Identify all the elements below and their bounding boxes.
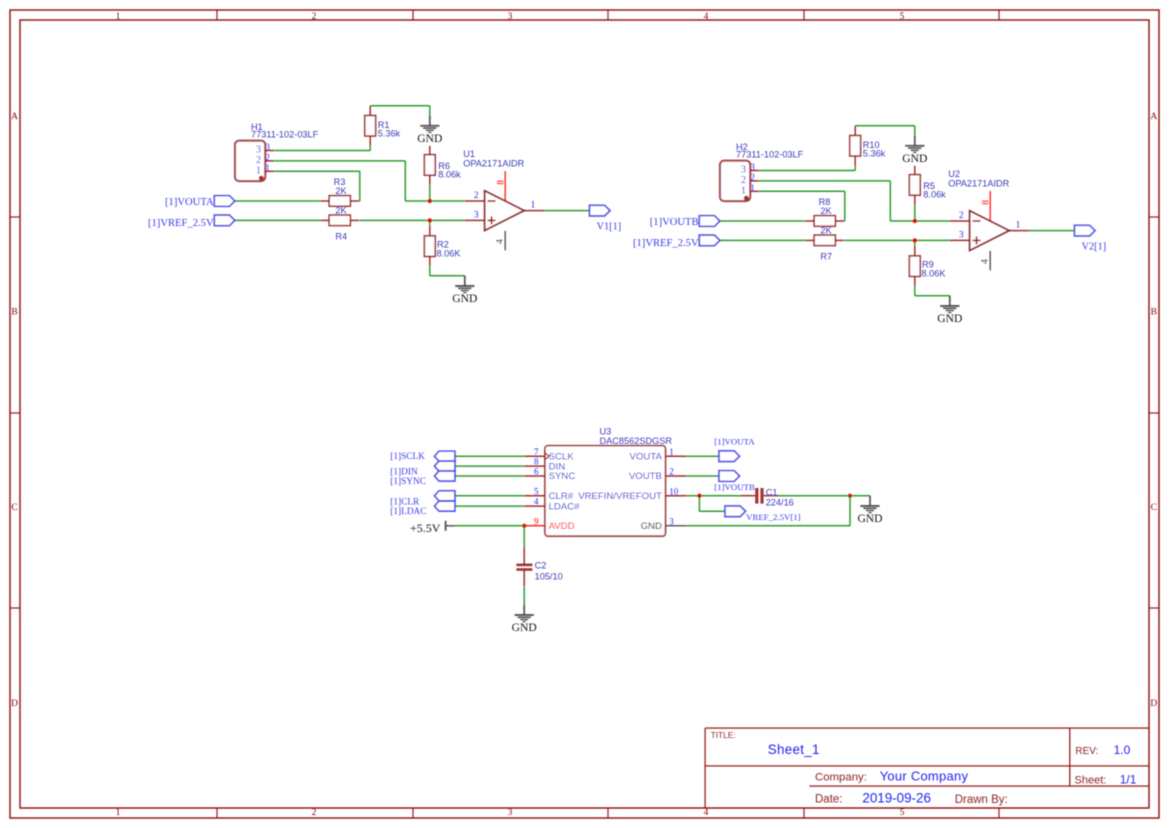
- svg-text:3: 3: [508, 12, 513, 22]
- svg-text:[1]CLR: [1]CLR: [390, 498, 420, 508]
- svg-text:R7: R7: [820, 252, 832, 262]
- svg-text:Sheet_1: Sheet_1: [768, 742, 820, 757]
- svg-text:2: 2: [312, 808, 317, 818]
- svg-text:3: 3: [265, 143, 270, 153]
- svg-text:GND: GND: [417, 132, 442, 145]
- svg-text:LDAC#: LDAC#: [549, 501, 581, 512]
- svg-text:2: 2: [265, 154, 270, 164]
- svg-text:VOUTB: VOUTB: [629, 471, 662, 482]
- svg-text:Date:: Date:: [815, 793, 843, 805]
- svg-text:5.36k: 5.36k: [378, 129, 401, 139]
- svg-text:3: 3: [508, 808, 513, 818]
- svg-text:3: 3: [256, 145, 261, 156]
- svg-text:B: B: [11, 308, 17, 318]
- svg-text:[1]VOUTB: [1]VOUTB: [714, 482, 755, 492]
- svg-text:2K: 2K: [335, 186, 347, 196]
- svg-text:D: D: [1150, 699, 1157, 709]
- svg-text:[1]VREF_2.5V: [1]VREF_2.5V: [148, 218, 214, 229]
- svg-text:OPA2171AIDR: OPA2171AIDR: [463, 158, 524, 168]
- svg-text:Drawn By:: Drawn By:: [955, 794, 1008, 806]
- svg-text:8.06k: 8.06k: [438, 170, 461, 180]
- svg-text:2019-09-26: 2019-09-26: [862, 790, 931, 805]
- svg-text:8: 8: [496, 180, 506, 185]
- svg-text:[1]VOUTA: [1]VOUTA: [714, 437, 755, 447]
- svg-text:[1]LDAC: [1]LDAC: [390, 507, 426, 517]
- svg-text:6: 6: [534, 467, 539, 477]
- svg-text:5: 5: [900, 808, 905, 818]
- svg-text:4: 4: [704, 12, 709, 22]
- svg-text:[1]DIN: [1]DIN: [390, 467, 418, 477]
- svg-text:2: 2: [474, 191, 479, 201]
- svg-text:2: 2: [959, 211, 964, 221]
- svg-text:1: 1: [116, 808, 121, 818]
- svg-text:1: 1: [531, 200, 536, 210]
- svg-text:Your Company: Your Company: [880, 768, 969, 783]
- svg-text:8.06K: 8.06K: [437, 248, 462, 258]
- svg-text:V2[1]: V2[1]: [1082, 242, 1107, 253]
- svg-text:2K: 2K: [335, 205, 347, 215]
- svg-text:GND: GND: [452, 292, 477, 305]
- svg-text:V1[1]: V1[1]: [597, 222, 622, 233]
- svg-text:2: 2: [312, 12, 317, 22]
- svg-text:8: 8: [534, 457, 539, 467]
- svg-text:105/10: 105/10: [535, 571, 563, 581]
- svg-text:GND: GND: [512, 621, 537, 634]
- svg-text:2: 2: [669, 467, 674, 477]
- svg-text:3: 3: [750, 163, 755, 173]
- svg-text:3: 3: [669, 516, 674, 526]
- svg-text:SYNC: SYNC: [549, 471, 576, 482]
- svg-text:TITLE:: TITLE:: [711, 730, 736, 740]
- svg-text:C2: C2: [535, 560, 547, 570]
- svg-text:5.36k: 5.36k: [863, 149, 886, 159]
- svg-text:DAC8562SDGSR: DAC8562SDGSR: [600, 436, 673, 446]
- svg-text:GND: GND: [857, 512, 882, 525]
- svg-text:[1]SYNC: [1]SYNC: [390, 477, 426, 487]
- svg-text:5: 5: [534, 486, 539, 496]
- svg-text:VREFIN/VREFOUT: VREFIN/VREFOUT: [578, 491, 662, 502]
- svg-text:OPA2171AIDR: OPA2171AIDR: [948, 178, 1009, 188]
- svg-text:GND: GND: [641, 521, 662, 532]
- svg-text:1: 1: [669, 447, 674, 457]
- svg-text:A: A: [1150, 112, 1157, 122]
- svg-text:10: 10: [669, 486, 679, 496]
- svg-text:1: 1: [750, 184, 755, 194]
- svg-text:2: 2: [256, 155, 261, 166]
- svg-text:[1]VOUTA: [1]VOUTA: [165, 197, 214, 208]
- svg-text:1: 1: [116, 12, 121, 22]
- svg-text:D: D: [11, 699, 18, 709]
- svg-text:1/1: 1/1: [1120, 773, 1137, 787]
- svg-text:1.0: 1.0: [1114, 743, 1131, 757]
- svg-text:77311-102-03LF: 77311-102-03LF: [736, 149, 804, 159]
- svg-text:[1]VREF_2.5V: [1]VREF_2.5V: [633, 238, 699, 249]
- svg-text:2K: 2K: [820, 225, 832, 235]
- svg-text:3: 3: [959, 231, 964, 241]
- svg-text:AVDD: AVDD: [549, 521, 575, 532]
- svg-text:77311-102-03LF: 77311-102-03LF: [251, 129, 319, 139]
- svg-text:3: 3: [741, 165, 746, 176]
- svg-text:8: 8: [981, 200, 991, 205]
- svg-text:VOUTA: VOUTA: [630, 451, 663, 462]
- svg-text:2: 2: [741, 175, 746, 186]
- svg-text:VREF_2.5V[1]: VREF_2.5V[1]: [746, 512, 801, 522]
- svg-text:1: 1: [256, 166, 261, 177]
- svg-text:1: 1: [265, 164, 270, 174]
- svg-text:B: B: [1151, 308, 1157, 318]
- svg-text:4: 4: [981, 259, 991, 264]
- svg-text:9: 9: [534, 516, 539, 526]
- svg-text:C1: C1: [766, 487, 778, 497]
- svg-text:[1]SCLK: [1]SCLK: [390, 452, 425, 462]
- svg-text:8.06K: 8.06K: [922, 268, 947, 278]
- svg-text:C: C: [1151, 503, 1157, 513]
- svg-text:[1]VOUTB: [1]VOUTB: [650, 217, 699, 228]
- svg-text:1: 1: [1016, 220, 1021, 230]
- svg-text:+5.5V: +5.5V: [410, 521, 441, 535]
- svg-text:GND: GND: [937, 312, 962, 325]
- svg-text:3: 3: [474, 211, 479, 221]
- svg-text:224/16: 224/16: [766, 498, 794, 508]
- svg-text:A: A: [11, 112, 18, 122]
- svg-text:Company:: Company:: [815, 771, 867, 783]
- svg-text:R4: R4: [335, 232, 347, 242]
- svg-text:5: 5: [900, 12, 905, 22]
- svg-text:8.06k: 8.06k: [923, 190, 946, 200]
- svg-text:4: 4: [534, 497, 539, 507]
- svg-text:2: 2: [750, 174, 755, 184]
- svg-text:4: 4: [496, 239, 506, 244]
- svg-text:1: 1: [741, 186, 746, 197]
- svg-text:Sheet:: Sheet:: [1075, 775, 1107, 787]
- svg-text:4: 4: [704, 808, 709, 818]
- svg-text:REV:: REV:: [1075, 746, 1098, 757]
- svg-text:2K: 2K: [820, 206, 832, 216]
- svg-text:C: C: [11, 503, 17, 513]
- svg-text:GND: GND: [902, 152, 927, 165]
- svg-text:7: 7: [534, 447, 539, 457]
